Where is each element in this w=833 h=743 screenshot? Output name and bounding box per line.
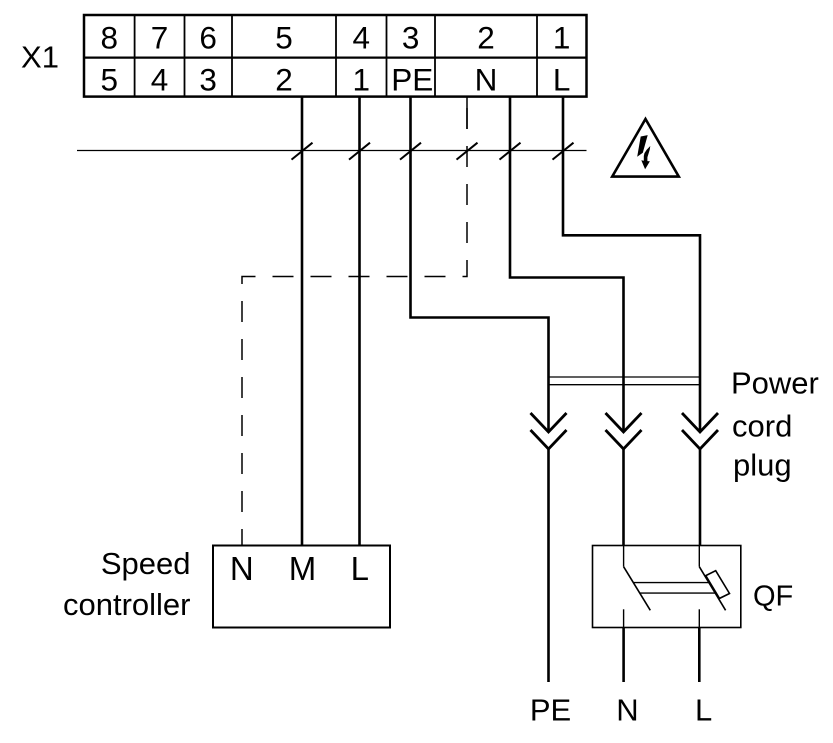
wire terminal 2 to speed controller M — [301, 97, 304, 545]
wire terminal L to plug — [563, 97, 700, 432]
QF pole N upper stub — [623, 546, 625, 567]
speed controller box — [213, 546, 390, 628]
svg-text:4: 4 — [353, 20, 371, 56]
svg-text:3: 3 — [402, 20, 420, 56]
power cord boundary double line — [549, 376, 700, 378]
crossing slash wire L — [553, 143, 574, 160]
svg-text:M: M — [289, 550, 317, 587]
svg-text:7: 7 — [151, 20, 169, 56]
crossing slash wire 1 — [349, 143, 370, 160]
svg-text:Power: Power — [731, 366, 819, 401]
terminal block X1 row divider — [84, 56, 587, 58]
QF pole L lower stub — [698, 609, 700, 627]
lightning bolt — [637, 135, 648, 157]
crossing slash wire N — [500, 143, 521, 160]
QF pole L blade — [699, 567, 725, 611]
svg-text:8: 8 — [101, 20, 119, 56]
svg-text:5: 5 — [101, 62, 119, 98]
svg-text:2: 2 — [477, 20, 495, 56]
svg-text:5: 5 — [275, 20, 293, 56]
svg-text:4: 4 — [151, 62, 169, 98]
wire terminal PE to plug — [411, 97, 549, 432]
wire QF N to bottom — [622, 628, 625, 683]
svg-text:N: N — [616, 693, 638, 728]
circuit breaker QF box — [593, 546, 741, 628]
svg-text:Speed: Speed — [101, 546, 191, 581]
svg-text:QF: QF — [753, 581, 793, 613]
plug contact L (double chevron) — [682, 413, 718, 449]
plug contact N (double chevron) — [606, 413, 642, 449]
wire terminal 1 to speed controller L — [358, 97, 361, 545]
wire QF L to bottom — [698, 628, 701, 683]
wire L plug to QF — [699, 449, 702, 546]
warning triangle — [612, 119, 679, 177]
crossing slash wire 2 — [292, 143, 313, 160]
svg-text:L: L — [553, 62, 571, 98]
svg-text:cord: cord — [732, 409, 792, 444]
dashed wire terminal N to speed controller N — [466, 97, 468, 129]
terminal block X1 outer frame — [84, 15, 587, 97]
wire PE plug to bottom — [547, 449, 550, 682]
cable crossing line — [77, 150, 587, 152]
QF pole N lower stub — [623, 609, 625, 627]
wire N plug to QF — [622, 449, 625, 546]
svg-text:1: 1 — [353, 62, 371, 98]
svg-text:plug: plug — [733, 448, 792, 483]
svg-text:N: N — [230, 550, 254, 587]
svg-text:3: 3 — [199, 62, 217, 98]
crossing slash wire PE — [400, 143, 421, 160]
svg-text:controller: controller — [63, 587, 191, 622]
svg-text:PE: PE — [530, 693, 571, 728]
svg-text:L: L — [695, 693, 712, 728]
QF pole L upper stub — [698, 546, 700, 567]
svg-text:X1: X1 — [21, 40, 59, 75]
QF pole N blade — [624, 567, 651, 611]
plug contact PE (double chevron) — [531, 413, 567, 449]
QF thermal element — [706, 571, 730, 599]
svg-text:N: N — [475, 62, 498, 98]
terminal block X1 column dividers — [135, 15, 537, 97]
svg-text:PE: PE — [391, 62, 433, 98]
crossing slash dashed wire — [457, 143, 478, 160]
svg-text:2: 2 — [275, 62, 293, 98]
svg-text:L: L — [351, 550, 369, 587]
wire terminal N to plug — [510, 97, 624, 432]
QF linkage double line — [633, 582, 711, 584]
svg-text:6: 6 — [199, 20, 217, 56]
svg-text:1: 1 — [553, 20, 571, 56]
